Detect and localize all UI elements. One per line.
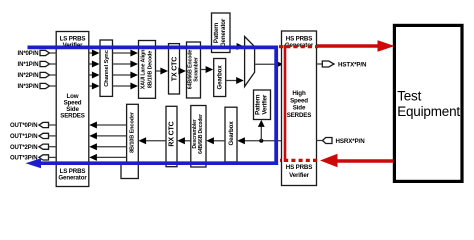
svg-text:High: High [292,90,306,97]
svg-text:OUT*3P/N: OUT*3P/N [10,156,38,162]
LS SERDES tall box [56,32,89,187]
Gearbox block (RX) [225,107,237,162]
wire Encoder to LS SERDES lane 1 [89,132,126,139]
junction node [259,139,263,143]
RX wire RX CTC to 8B/10B Encoder [139,137,167,144]
svg-text:IN*3P/N: IN*3P/N [18,84,39,90]
Channel Sync block [100,40,113,96]
HS SERDES tall box [282,31,317,186]
Pattern Generator block [212,13,231,53]
High Speed Side SERDES label [287,90,312,119]
input pin IN*1P/N [18,61,57,68]
RX wire HS SERDES to Gearbox [237,137,281,144]
svg-text:Generator: Generator [220,18,227,47]
8B/10B Encoder block [127,104,139,163]
svg-text:Descrambler: Descrambler [192,119,198,148]
wire Encoder to LS SERDES lane 0 [89,122,126,129]
HS PRBS Generator label [285,36,314,50]
wire Scrambler to Gearbox [201,66,214,73]
wire Encoder to LS SERDES lane 3 [89,154,126,161]
red TX dashed segment [279,45,318,48]
red RX dashed segment [280,159,317,162]
wire mux to HS SERDES [255,61,284,68]
output pin OUT*1P/N [10,133,56,140]
svg-text:Side: Side [293,105,306,112]
svg-text:OUT*0P/N: OUT*0P/N [10,123,38,129]
LS PRBS Generator label [58,168,87,182]
svg-text:8B/10B Encoder: 8B/10B Encoder [129,111,135,153]
svg-text:Speed: Speed [290,97,308,104]
svg-text:HSRX*P/N: HSRX*P/N [336,138,366,145]
Descrambler 64B/66B Decoder block [191,106,206,168]
svg-text:Equipment: Equipment [397,104,460,119]
wire Gearbox to mux [226,77,244,84]
mux [245,37,255,87]
svg-text:Generator: Generator [58,174,87,181]
svg-text:IN*0P/N: IN*0P/N [18,51,39,57]
svg-text:SERDES: SERDES [60,112,85,119]
blue loopback path [28,46,279,166]
wire SERDES to Channel Sync lane 1 [89,61,100,68]
svg-text:Verifier: Verifier [262,94,269,115]
wire Encoder to LS SERDES lane 2 [89,143,126,150]
wire junction up to Pattern Verifier [258,120,265,141]
svg-text:Channel Sync: Channel Sync [104,49,110,86]
svg-text:Test: Test [397,89,421,104]
wire Channel Sync to XAUI lane 3 [113,83,139,90]
red RX solid arrow from Test Equipment [337,159,394,162]
svg-text:8B/10B Decode: 8B/10B Decode [147,51,153,88]
wire Channel Sync to XAUI lane 2 [113,72,139,79]
wire SERDES to Channel Sync lane 3 [89,83,100,90]
svg-text:OUT*1P/N: OUT*1P/N [10,134,38,140]
LS PRBS Verifier label [60,35,86,49]
output pin OUT*2P/N [10,144,56,151]
svg-text:Verifier: Verifier [289,172,310,179]
svg-text:Gearbox: Gearbox [217,65,224,90]
HS PRBS Verifier label [286,164,312,179]
svg-text:RX CTC: RX CTC [168,121,175,146]
RX CTC block [166,106,177,166]
blue arrowhead [26,158,42,168]
output pin OUT*0P/N [10,122,56,129]
input pin IN*3P/N [18,83,57,90]
svg-text:Pattern: Pattern [255,94,262,115]
Gearbox block (TX) [214,59,226,97]
svg-text:SERDES: SERDES [287,112,312,119]
output pin HSTX*P/N [317,61,368,68]
wire XAUI to TX CTC [156,68,169,75]
Test Equipment box [394,25,462,181]
svg-text:Scrambler: Scrambler [194,57,200,82]
svg-text:IN*1P/N: IN*1P/N [18,62,39,68]
input pin HSRX*P/N [317,138,366,145]
svg-text:HS PRBS: HS PRBS [286,164,312,171]
wire SERDES to Channel Sync lane 2 [89,72,100,79]
output pin OUT*3P/N [10,155,56,162]
svg-text:IN*2P/N: IN*2P/N [18,73,39,79]
RX wire Descrambler to RX CTC [177,137,191,144]
svg-text:HSTX*P/N: HSTX*P/N [338,61,367,68]
64B/66B Encode Scrambler block [187,42,201,98]
svg-text:TX CTC: TX CTC [171,57,178,81]
wire SERDES to Channel Sync lane 0 [89,50,100,57]
red TX solid arrow to Test Equipment [317,44,379,47]
input pin IN*0P/N [18,50,57,57]
TX CTC block [169,44,180,94]
svg-text:OUT*2P/N: OUT*2P/N [10,145,38,151]
svg-text:Pattern: Pattern [213,23,220,44]
wire Channel Sync to XAUI lane 0 [113,50,139,57]
wire Pattern Generator to mux (under blue line) [230,43,244,50]
Pattern Verifier block [254,90,271,120]
wire TX CTC to Scrambler [178,68,186,75]
lower stub box below encoder [121,163,138,179]
wire Channel Sync to XAUI lane 1 [113,61,139,68]
svg-text:Gearbox: Gearbox [228,121,235,146]
Low Speed Side SERDES label [60,93,85,119]
XAUI Lane Align 8B/10B Decode block [139,41,156,99]
svg-text:XAUI Lane Align: XAUI Lane Align [141,50,147,89]
RX wire Gearbox to Descrambler [206,137,225,144]
svg-text:64B/66B Decoder: 64B/66B Decoder [198,114,204,154]
red vertical link [284,45,287,162]
input pin IN*2P/N [18,72,57,79]
